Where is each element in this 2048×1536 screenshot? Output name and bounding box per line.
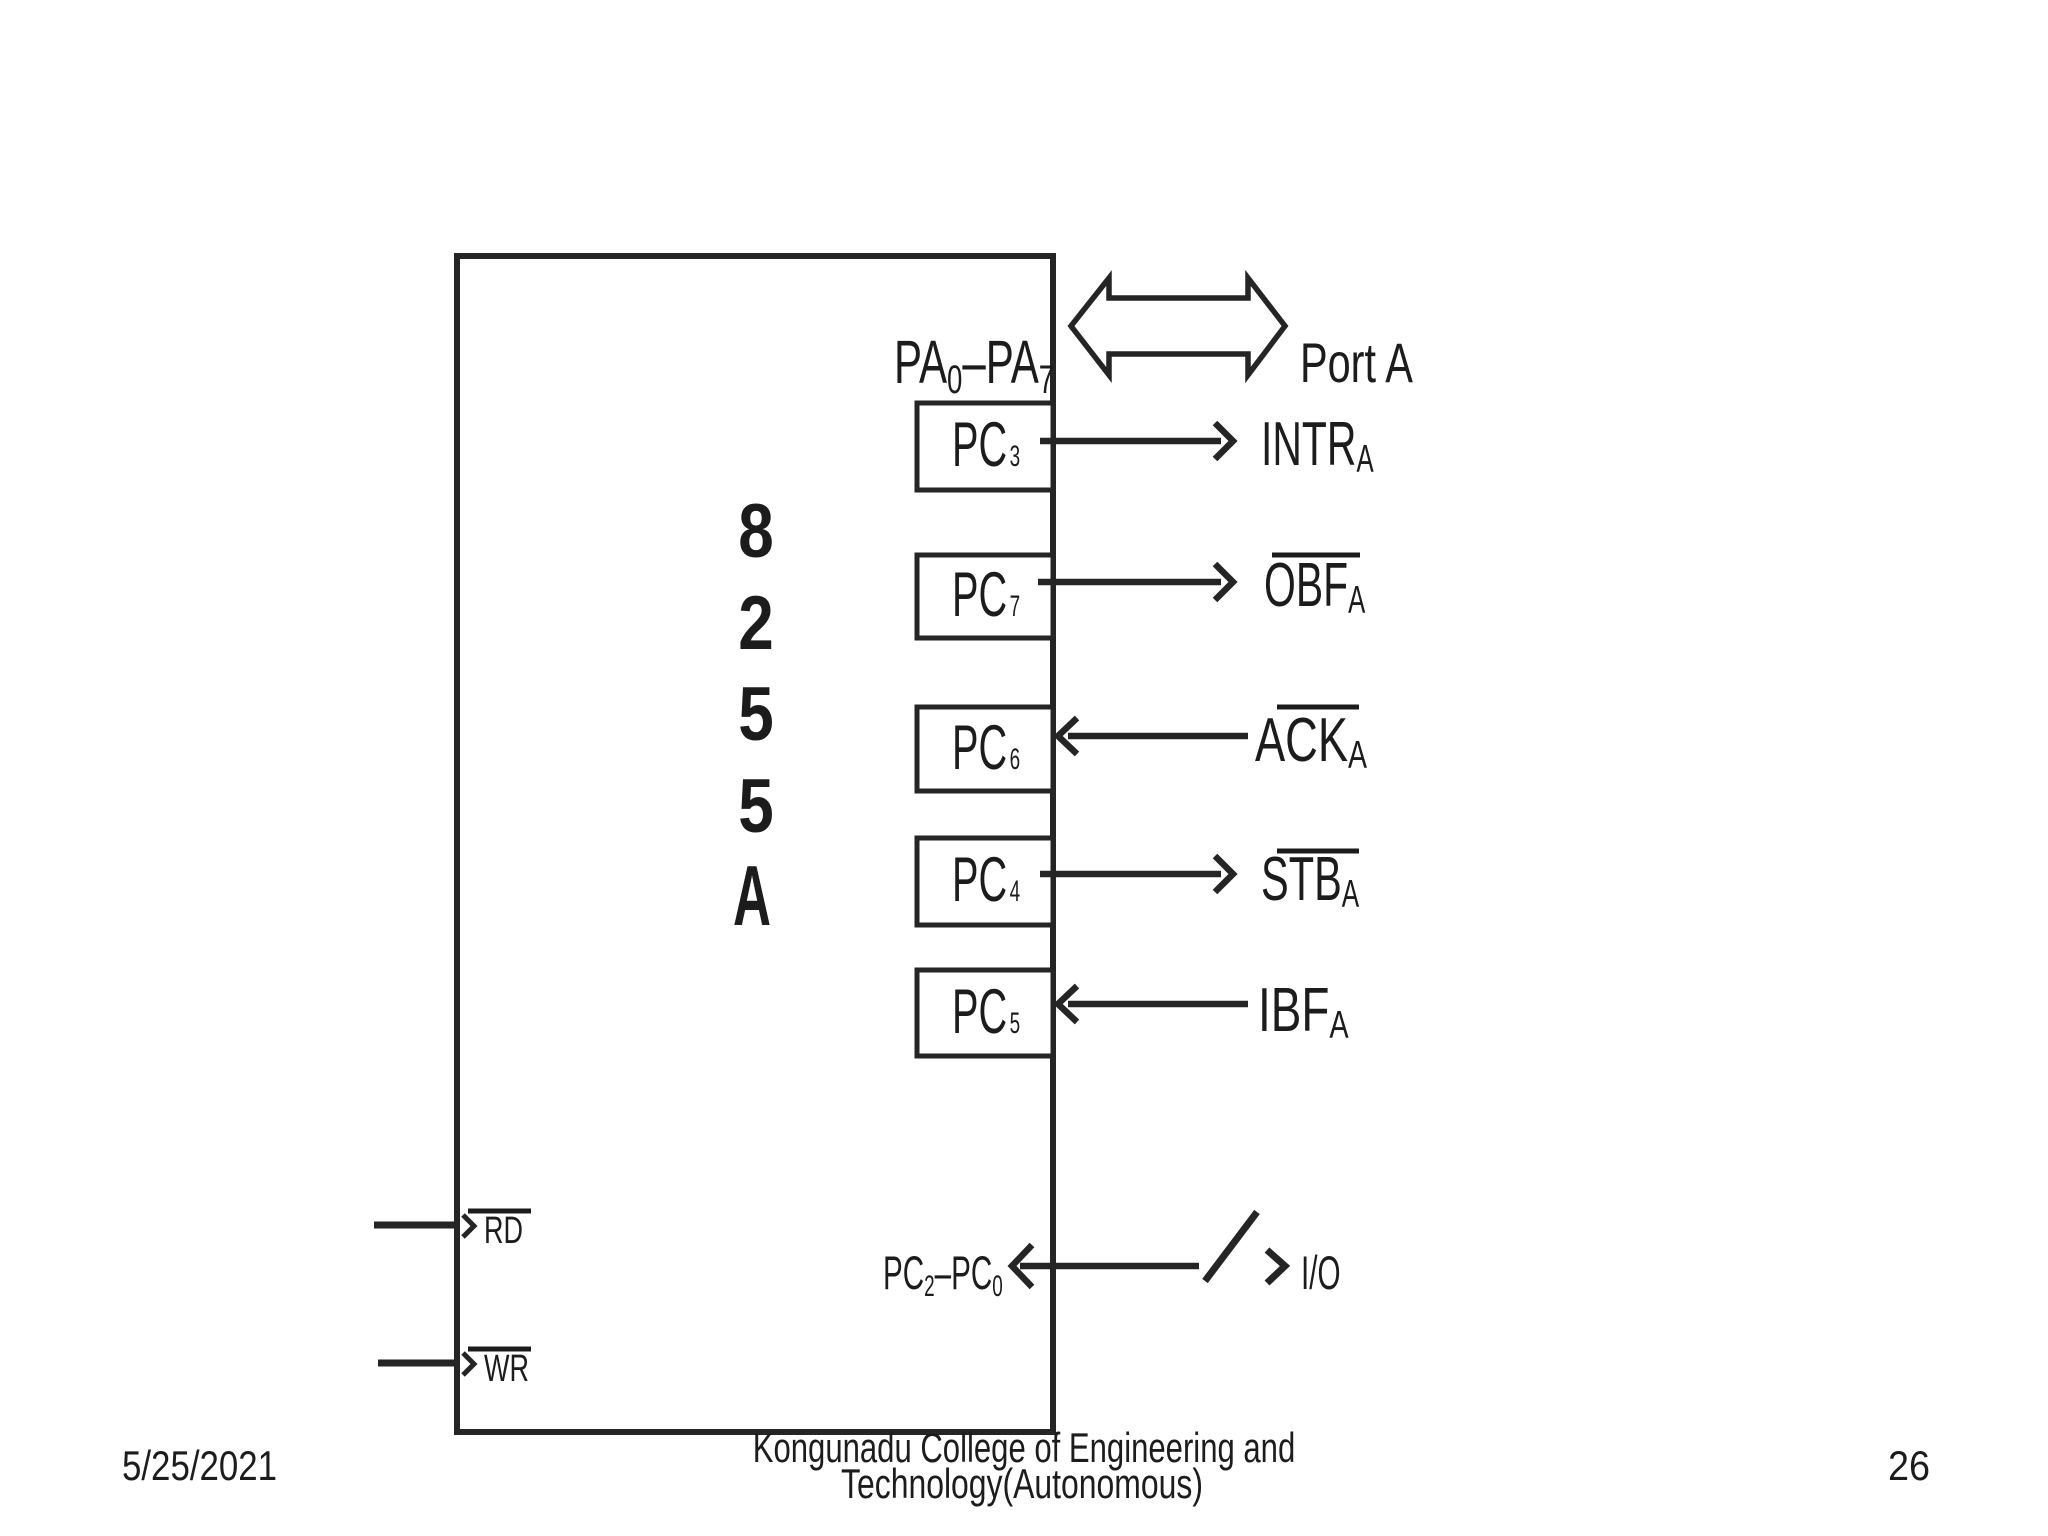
svg-text:RD: RD [484, 1208, 523, 1251]
arrowhead ACKA (points left) [1058, 718, 1077, 754]
wire RD input [374, 1222, 456, 1229]
wire PC7 to OBFA [1038, 579, 1221, 586]
arrowhead STBA (points right) [1215, 856, 1233, 892]
port box PC6 [917, 707, 1053, 791]
svg-text:WR: WR [484, 1346, 529, 1389]
svg-text:OBFA: OBFA [1264, 551, 1365, 623]
port box PC4 [917, 838, 1053, 925]
svg-text:Technology(Autonomous): Technology(Autonomous) [841, 1460, 1203, 1507]
net label OBFA with overbar [1272, 553, 1360, 558]
wire ACKA to PC6 [1068, 733, 1248, 740]
arrowhead PC2-PC0 (points left) [1012, 1245, 1032, 1287]
svg-text:A: A [733, 848, 771, 943]
svg-text:PA0–PA7: PA0–PA7 [894, 329, 1054, 402]
arrowhead IBFA (points left) [1058, 986, 1077, 1022]
wire PC3 to INTRA [1040, 438, 1221, 445]
svg-text:5/25/2021: 5/25/2021 [122, 1443, 277, 1490]
net label PA0-PA7 [894, 329, 1054, 402]
svg-text:I/O: I/O [1301, 1247, 1340, 1300]
port box PC3 [917, 403, 1053, 490]
wire IBFA to PC5 [1068, 1001, 1248, 1008]
label 8255A [733, 488, 774, 943]
svg-text:2: 2 [738, 580, 774, 666]
IC U1 8255A body [457, 256, 1053, 1432]
wire PC4 to STBA [1040, 871, 1221, 878]
svg-text:PC2–PC0: PC2–PC0 [883, 1247, 1003, 1303]
pin label WR with overbar [468, 1347, 531, 1352]
svg-text:STBA: STBA [1261, 845, 1360, 917]
svg-text:Port A: Port A [1300, 332, 1413, 395]
svg-text:ACKA: ACKA [1255, 705, 1367, 777]
pin marker WR [463, 1353, 474, 1375]
svg-text:26: 26 [1888, 1443, 1930, 1489]
svg-text:5: 5 [738, 671, 774, 757]
svg-text:INTRA: INTRA [1261, 410, 1374, 482]
net label ACKA with overbar [1277, 705, 1359, 710]
port box PC5 [917, 970, 1053, 1056]
svg-text:5: 5 [738, 763, 774, 849]
svg-text:8: 8 [738, 488, 774, 574]
net label STBA with overbar [1277, 849, 1359, 854]
arrowhead INTRA (points right) [1215, 423, 1233, 459]
pin label RD with overbar [468, 1209, 531, 1214]
arrowhead OBFA (points right) [1215, 564, 1233, 600]
svg-text:IBFA: IBFA [1258, 975, 1349, 1047]
wire Port A bidirectional bus double arrow [1071, 278, 1285, 375]
port box PC7 [917, 555, 1053, 638]
wire I/O to PC2-PC0 [1020, 1263, 1199, 1270]
bus-width slash [1205, 1212, 1257, 1281]
chevron before I/O [1267, 1250, 1285, 1283]
pin marker RD [463, 1215, 474, 1237]
wire WR input [378, 1360, 456, 1367]
